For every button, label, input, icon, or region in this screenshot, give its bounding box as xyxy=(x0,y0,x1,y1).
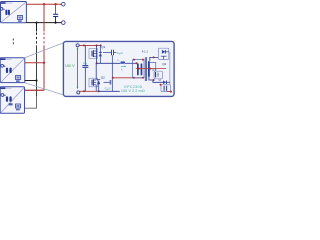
node top rail dot 1 xyxy=(83,44,85,46)
transistor Q1 (high side) xyxy=(89,45,102,63)
node secondary top dot xyxy=(153,56,155,58)
transistor Q4 (sync rectifier) xyxy=(158,48,168,59)
node red link dot 3 xyxy=(142,77,144,79)
wire + rail from U1 xyxy=(26,3,61,5)
capacitor C1 (bus cap) xyxy=(53,4,58,22)
wire center tap (red) xyxy=(136,68,166,70)
terminal Vin+ xyxy=(76,44,79,47)
svg-text:Q1: Q1 xyxy=(101,45,105,49)
svg-text:150 V: 150 V xyxy=(65,64,75,68)
svg-text:CB/2: CB/2 xyxy=(117,51,123,56)
wire -bus vertical (solid bottom) xyxy=(36,45,38,96)
callout line lower (U3 to detail box) xyxy=(25,83,64,95)
svg-text:4:1:1: 4:1:1 xyxy=(142,50,148,54)
node primary top red dot xyxy=(136,62,138,64)
svg-text:Q4: Q4 xyxy=(162,62,166,66)
wire output + vertical (faint) xyxy=(169,52,171,85)
terminal - (bottom) xyxy=(62,21,66,25)
inductor Lr xyxy=(120,61,125,63)
wire -bus vertical (solid top) xyxy=(36,23,38,32)
wire top rail (red) xyxy=(79,44,100,46)
capacitor Cin xyxy=(82,45,88,91)
transformer T1 primary winding B xyxy=(141,63,143,75)
node bottom rail dot 2 xyxy=(98,90,100,92)
wire switch node xyxy=(97,62,121,64)
svg-text:CB/2: CB/2 xyxy=(105,87,111,92)
wire +bus vertical (solid top) xyxy=(43,4,45,31)
node red link dot 2 xyxy=(133,77,135,79)
module U2 (DC-DC brick, middle) xyxy=(0,58,25,83)
wire tank to primary loop xyxy=(125,62,137,64)
wire +bus vertical (solid bottom) xyxy=(25,45,44,90)
transistor Q2 (low side) xyxy=(89,63,100,91)
terminal Vin- xyxy=(77,91,80,94)
capacitor Cout bank xyxy=(161,85,171,92)
module U3 (DC-DC brick, bottom) xyxy=(0,87,24,114)
wire bottom rail (red) xyxy=(80,90,99,92)
node - rail junction at bus xyxy=(35,22,37,24)
capacitor CB/2 top xyxy=(103,50,116,55)
wire - rail from U1 xyxy=(26,22,62,24)
callout line upper (U2 to detail box) xyxy=(25,43,64,58)
module U1 (DC-DC brick, top) xyxy=(0,2,26,23)
wire +bus vertical (dashed) xyxy=(43,33,45,46)
detail box (module internals) xyxy=(63,41,174,96)
node top rail dot 3 xyxy=(100,44,102,46)
node center tap dot 2 xyxy=(149,68,151,70)
svg-text:Q2: Q2 xyxy=(101,75,105,79)
node top rail dot 2 xyxy=(96,44,98,46)
node - rail junction at cap xyxy=(54,22,56,24)
source V1 annotation line (green) xyxy=(77,47,79,88)
node + rail junction at bus xyxy=(43,3,45,5)
terminal + (top) xyxy=(62,2,66,6)
node secondary bottom dot xyxy=(153,79,155,81)
diode D1 output xyxy=(163,81,170,85)
node center tap dot 1 xyxy=(138,68,140,70)
wire resonant red link xyxy=(112,77,144,79)
wire node A vertical xyxy=(111,55,113,80)
wire -bus vertical (dashed) xyxy=(36,33,38,46)
label current arrow (teal) xyxy=(121,66,126,72)
node loop dot 1 xyxy=(133,59,135,61)
node + rail junction at cap xyxy=(54,3,56,5)
node -bus junction U2 xyxy=(35,79,37,81)
node loop dot 2 xyxy=(142,59,144,61)
wire bottom rail (navy continuation) xyxy=(99,90,120,92)
wire U3 + feed xyxy=(25,89,44,91)
wire U2 - output xyxy=(25,80,37,82)
node output dot right xyxy=(170,91,172,93)
wire secondary bottom xyxy=(149,77,163,82)
node bottom rail dot 1 xyxy=(83,90,85,92)
wire U2 + output xyxy=(25,62,44,64)
capacitor CB/2 bottom xyxy=(104,80,113,91)
wire continuation dashes (more modules) xyxy=(12,39,14,46)
node switch node xyxy=(96,62,98,64)
wire output return stub xyxy=(167,91,171,93)
transformer T1 primary winding A xyxy=(137,63,139,75)
node +bus junction U2 xyxy=(43,62,45,64)
wire secondary tap to Q3 xyxy=(150,62,156,71)
transformer T1 primary loop xyxy=(133,60,144,78)
transistor Q3 (sync rectifier) xyxy=(154,71,162,80)
node output dot left xyxy=(160,84,162,86)
wire secondary top to Q4 xyxy=(150,57,159,61)
transformer T1 secondary winding xyxy=(148,61,150,77)
svg-text:150 V 2.2 mΩ: 150 V 2.2 mΩ xyxy=(121,88,145,93)
svg-text:Q3: Q3 xyxy=(152,67,156,71)
node A red junction xyxy=(112,77,114,79)
transformer T1 core xyxy=(145,57,146,81)
